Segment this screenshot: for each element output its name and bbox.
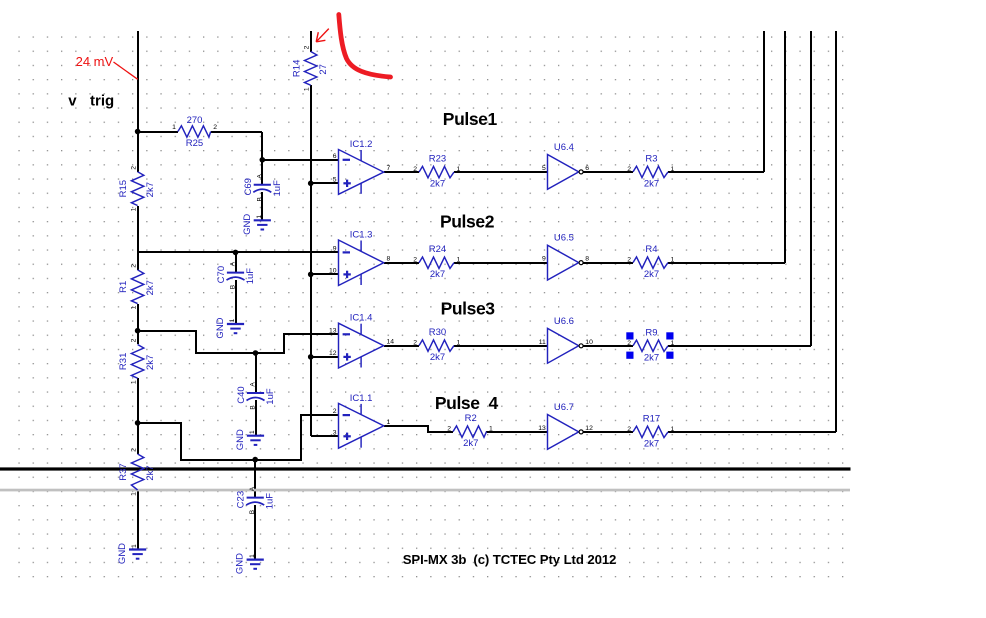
svg-text:R3: R3 xyxy=(645,153,657,164)
svg-text:1: 1 xyxy=(671,257,675,264)
svg-text:A: A xyxy=(250,382,257,387)
svg-text:GND: GND xyxy=(235,553,246,574)
svg-text:C70: C70 xyxy=(216,266,227,283)
svg-text:2: 2 xyxy=(413,340,417,347)
svg-text:1: 1 xyxy=(249,430,256,434)
svg-text:GND: GND xyxy=(117,543,128,564)
svg-text:2: 2 xyxy=(304,45,311,49)
svg-text:1: 1 xyxy=(131,305,138,309)
svg-text:12: 12 xyxy=(585,425,593,432)
svg-text:2: 2 xyxy=(333,408,337,415)
svg-text:R25: R25 xyxy=(186,138,203,149)
svg-text:B: B xyxy=(256,197,263,201)
svg-text:v: v xyxy=(68,93,77,110)
svg-text:2: 2 xyxy=(131,338,138,342)
svg-text:R14: R14 xyxy=(291,60,302,77)
svg-text:B: B xyxy=(249,510,256,514)
svg-text:1: 1 xyxy=(131,380,138,384)
svg-text:2: 2 xyxy=(447,426,451,433)
svg-text:2k7: 2k7 xyxy=(145,465,156,480)
svg-text:1: 1 xyxy=(229,318,236,322)
svg-text:IC1.2: IC1.2 xyxy=(350,139,373,150)
svg-text:1: 1 xyxy=(457,166,461,173)
svg-text:Pulse3: Pulse3 xyxy=(441,299,496,319)
svg-text:IC1.3: IC1.3 xyxy=(350,230,373,241)
svg-text:5: 5 xyxy=(542,165,546,172)
svg-text:24 mV: 24 mV xyxy=(76,54,114,69)
svg-text:1uF: 1uF xyxy=(265,493,276,510)
svg-text:GND: GND xyxy=(215,317,226,338)
svg-text:GND: GND xyxy=(235,429,246,450)
svg-text:R4: R4 xyxy=(645,244,657,255)
svg-text:A: A xyxy=(249,486,256,491)
svg-text:U6.7: U6.7 xyxy=(554,402,574,413)
svg-text:2k7: 2k7 xyxy=(463,438,478,449)
svg-text:IC1.1: IC1.1 xyxy=(350,393,373,404)
svg-text:2k7: 2k7 xyxy=(644,352,659,363)
svg-text:1uF: 1uF xyxy=(265,388,276,405)
svg-text:R17: R17 xyxy=(643,413,660,424)
svg-text:R1: R1 xyxy=(118,281,129,293)
svg-text:2k7: 2k7 xyxy=(430,352,445,363)
svg-text:1: 1 xyxy=(671,340,675,347)
svg-text:7: 7 xyxy=(387,165,391,172)
svg-text:2: 2 xyxy=(413,166,417,173)
svg-text:A: A xyxy=(230,261,237,266)
svg-text:2: 2 xyxy=(627,166,631,173)
svg-text:2k7: 2k7 xyxy=(430,179,445,190)
svg-text:1: 1 xyxy=(131,544,138,548)
svg-text:A: A xyxy=(256,173,263,178)
svg-text:1: 1 xyxy=(489,426,493,433)
svg-text:1: 1 xyxy=(387,419,391,426)
svg-text:10: 10 xyxy=(585,339,593,346)
svg-text:9: 9 xyxy=(542,256,546,263)
svg-text:2: 2 xyxy=(627,257,631,264)
svg-text:2: 2 xyxy=(131,166,138,170)
svg-text:2k7: 2k7 xyxy=(145,182,156,197)
svg-text:1: 1 xyxy=(249,554,256,558)
svg-text:Pulse1: Pulse1 xyxy=(443,109,498,129)
svg-text:27: 27 xyxy=(318,64,329,75)
svg-text:9: 9 xyxy=(333,245,337,252)
svg-text:2: 2 xyxy=(131,448,138,452)
svg-text:2: 2 xyxy=(627,340,631,347)
svg-text:2k7: 2k7 xyxy=(644,178,659,189)
svg-text:1: 1 xyxy=(304,87,311,91)
svg-text:6: 6 xyxy=(333,153,337,160)
svg-text:2: 2 xyxy=(413,257,417,264)
svg-text:IC1.4: IC1.4 xyxy=(350,313,373,324)
svg-text:R31: R31 xyxy=(118,353,129,370)
svg-text:11: 11 xyxy=(539,339,546,346)
svg-text:1: 1 xyxy=(671,166,675,173)
svg-text:U6.5: U6.5 xyxy=(554,233,574,244)
svg-text:Pulse 4: Pulse 4 xyxy=(435,393,499,413)
svg-text:2k7: 2k7 xyxy=(644,269,659,280)
svg-text:2k7: 2k7 xyxy=(644,438,659,449)
svg-text:R2: R2 xyxy=(465,413,477,424)
svg-text:2k7: 2k7 xyxy=(145,355,156,370)
svg-text:R37: R37 xyxy=(118,463,129,480)
svg-text:GND: GND xyxy=(242,214,253,235)
svg-text:2: 2 xyxy=(627,426,631,433)
svg-text:C23: C23 xyxy=(236,491,247,508)
svg-text:B: B xyxy=(230,285,237,289)
svg-text:R9: R9 xyxy=(645,327,657,338)
svg-text:1uF: 1uF xyxy=(245,268,256,285)
svg-text:3: 3 xyxy=(333,429,337,436)
svg-text:14: 14 xyxy=(387,339,395,346)
svg-text:Pulse2: Pulse2 xyxy=(440,212,495,232)
svg-text:1: 1 xyxy=(172,124,176,131)
svg-text:5: 5 xyxy=(333,176,337,183)
svg-text:1: 1 xyxy=(256,215,263,219)
svg-text:6: 6 xyxy=(585,165,589,172)
svg-text:C40: C40 xyxy=(236,386,247,403)
svg-text:8: 8 xyxy=(387,256,391,263)
svg-text:B: B xyxy=(250,405,257,409)
svg-text:12: 12 xyxy=(329,350,337,357)
svg-text:13: 13 xyxy=(329,327,337,334)
svg-text:C69: C69 xyxy=(243,178,254,195)
svg-text:trig: trig xyxy=(90,93,114,110)
svg-text:U6.4: U6.4 xyxy=(554,142,574,153)
svg-text:R30: R30 xyxy=(429,327,446,338)
svg-text:1: 1 xyxy=(457,257,461,264)
svg-text:R24: R24 xyxy=(429,244,446,255)
svg-text:2k7: 2k7 xyxy=(145,280,156,295)
svg-text:10: 10 xyxy=(329,267,337,274)
svg-text:2k7: 2k7 xyxy=(430,269,445,280)
svg-text:U6.6: U6.6 xyxy=(554,316,574,327)
svg-text:1: 1 xyxy=(131,492,138,496)
svg-text:2: 2 xyxy=(131,264,138,268)
svg-text:270: 270 xyxy=(187,115,203,126)
svg-text:8: 8 xyxy=(585,256,589,263)
svg-text:1uF: 1uF xyxy=(272,180,283,197)
svg-text:1: 1 xyxy=(671,426,675,433)
svg-text:R15: R15 xyxy=(118,180,129,197)
svg-text:R23: R23 xyxy=(429,154,446,165)
svg-text:SPI-MX 3b (c) TCTEC Pty Ltd 2: SPI-MX 3b (c) TCTEC Pty Ltd 2012 xyxy=(403,552,617,567)
svg-text:1: 1 xyxy=(457,340,461,347)
svg-text:1: 1 xyxy=(131,207,138,211)
svg-text:2: 2 xyxy=(213,124,217,131)
svg-text:13: 13 xyxy=(538,425,546,432)
